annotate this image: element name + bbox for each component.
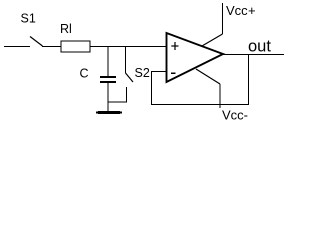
switch S1 blade [30,37,43,47]
svg-text:Vcc: Vcc [226,3,248,18]
wire S2 bottom stub [126,87,127,102]
op-amp minus [171,73,176,75]
svg-text:S1: S1 [21,12,36,26]
wire capacitor top stub [108,46,109,77]
svg-text:C: C [80,67,89,81]
svg-text:out: out [248,38,271,56]
svg-text:Rl: Rl [60,22,72,36]
wire output [223,54,284,55]
wire VCC- diagonal [196,69,220,84]
op-amp plus [171,45,178,46]
resistor Rl [61,41,90,52]
op-amp U1 [167,33,224,82]
svg-text:+: + [248,3,256,18]
wire S2 to ground node [108,102,127,103]
switch S2 blade [126,73,134,82]
svg-text:S2: S2 [135,66,150,80]
wire S1 to R [42,46,61,47]
wire VCC+ diagonal [202,34,223,46]
capacitor C bottom plate [100,81,116,83]
wire input left [4,46,30,47]
wire feedback bottom [151,104,249,105]
wire R to op-amp [90,46,167,47]
wire feedback right vertical [248,54,249,105]
svg-text:Vcc-: Vcc- [222,108,248,123]
capacitor C top plate [100,76,116,78]
wire capacitor bottom stub [108,83,109,112]
wire feedback left vertical [151,71,152,105]
wire VCC- vertical [220,84,221,108]
ground [98,111,120,114]
wire inverting input [151,71,167,72]
wire S2 top stub [125,46,126,73]
wire VCC+ vertical [222,3,223,34]
